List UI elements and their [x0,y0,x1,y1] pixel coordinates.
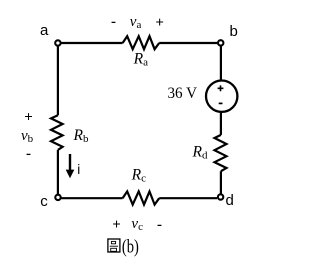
wire Rb to c [57,150,59,194]
source plus terminal [218,85,224,91]
svg-text:b: b [230,23,238,40]
node b [218,40,223,45]
voltage source 36 V [206,81,237,112]
node a [55,40,60,45]
svg-text:i: i [77,162,80,177]
resistor Rd [215,135,227,171]
resistor Ra [123,36,160,49]
current arrow i [69,154,71,172]
resistor Rb [51,115,63,150]
source minus terminal [219,102,223,104]
node c [55,195,60,200]
caption glyph 圖 (drawn) [108,239,120,252]
svg-text:-: - [111,14,116,30]
svg-text:d: d [226,192,234,209]
svg-text:+: + [24,109,33,125]
svg-text:-: - [157,217,162,233]
svg-text:+: + [112,217,121,233]
resistor Rc [123,191,160,204]
wire b to source [220,46,222,80]
wire source to Rd [220,112,222,135]
svg-text:36 V: 36 V [168,85,198,102]
node d [218,194,223,199]
svg-text:a: a [40,22,49,39]
wire a to Rb [57,46,59,115]
svg-text:-: - [26,146,31,162]
wire Ra to b [159,42,217,44]
svg-text:c: c [40,193,48,210]
wire Rd to d [220,171,222,193]
wire c to Rc [61,197,122,199]
wire a to Ra [61,42,122,44]
wire Rc to d [159,197,217,199]
svg-text:+: + [155,15,164,31]
svg-text:(b): (b) [122,237,139,258]
